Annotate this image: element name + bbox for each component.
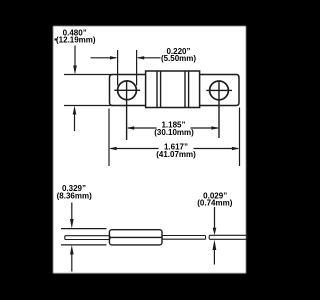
0.480 upper arrow stem bbox=[74, 46, 76, 68]
0.220 left arrowhead (right) bbox=[110, 56, 118, 59]
0.029 lower arrowhead (up) bbox=[213, 240, 217, 251]
0.029 upper arrow stem bbox=[214, 207, 216, 228]
right mounting hole bbox=[210, 81, 229, 100]
1.617 right arrowhead bbox=[232, 147, 240, 150]
1.185 left arrowhead bbox=[127, 126, 135, 129]
0.480 lower arrowhead (up) bbox=[73, 106, 77, 115]
1.617 dimension line left segment bbox=[111, 148, 159, 150]
1.617 left arrowhead bbox=[109, 147, 117, 150]
body rib line 4 bbox=[188, 71, 190, 108]
0.029 lower arrow stem bbox=[213, 249, 215, 265]
left mounting hole bbox=[118, 81, 137, 100]
white drawing panel bbox=[53, 26, 246, 273]
right hole centerline vertical bbox=[218, 81, 220, 138]
0.329 upper arrowhead (down) bbox=[70, 219, 74, 229]
svg-text:(12.19mm): (12.19mm) bbox=[56, 36, 96, 45]
side view right terminal blade segment 2 bbox=[209, 235, 247, 239]
0.329 upper arrow stem bbox=[71, 203, 73, 220]
body rib line 1 bbox=[156, 71, 158, 108]
fuse left tab outline bbox=[110, 75, 147, 106]
body rib line 3 bbox=[184, 71, 186, 108]
0.220 left extension line (hole tangent) bbox=[117, 50, 119, 86]
0.480 upper arrowhead (down) bbox=[73, 66, 77, 75]
left hole crosshair horizontal bbox=[114, 89, 140, 91]
side view fuse body block bbox=[109, 230, 162, 245]
side view left terminal blade bbox=[65, 236, 110, 240]
side view right terminal blade segment 1 bbox=[162, 236, 206, 240]
1.185 dimension line left segment bbox=[128, 127, 157, 129]
0.220 right extension line (hole tangent) bbox=[136, 50, 138, 86]
left hole centerline vertical bbox=[126, 81, 128, 140]
fuse central body outline bbox=[146, 71, 200, 108]
svg-text:(41.07mm): (41.07mm) bbox=[156, 150, 196, 159]
1.617 right extension line bbox=[239, 108, 241, 167]
1.185 dimension line right segment bbox=[191, 127, 219, 129]
fuse right tab outline bbox=[200, 75, 239, 106]
bullet artifact before (12.19mm) bbox=[55, 38, 57, 40]
0.220 left leader line bbox=[91, 57, 117, 59]
side view body parting midline bbox=[109, 236, 162, 238]
0.220 right arrowhead (left) bbox=[137, 56, 145, 59]
body rib line 2 bbox=[160, 71, 162, 108]
right hole crosshair horizontal bbox=[206, 89, 232, 91]
0.220 right leader line bbox=[138, 57, 161, 59]
1.617 left extension line bbox=[108, 109, 110, 167]
0.029 upper arrowhead (down) bbox=[213, 228, 217, 236]
1.185 right arrowhead bbox=[211, 126, 219, 129]
side view lower extension line bbox=[61, 244, 107, 246]
top-view upper extension line (tab top edge extended left) bbox=[64, 74, 113, 76]
1.617 dimension line right segment bbox=[194, 148, 239, 150]
0.329 lower arrowhead (up) bbox=[70, 245, 74, 255]
svg-text:(5.50mm): (5.50mm) bbox=[161, 54, 196, 63]
0.480 lower arrow stem bbox=[74, 113, 76, 131]
svg-text:(30.10mm): (30.10mm) bbox=[154, 128, 194, 137]
svg-text:(0.74mm): (0.74mm) bbox=[197, 199, 232, 208]
top-view lower extension line (tab bottom edge extended left) bbox=[64, 105, 113, 107]
0.329 lower arrow stem bbox=[71, 254, 73, 272]
svg-text:(8.36mm): (8.36mm) bbox=[57, 191, 92, 200]
side view upper extension line bbox=[61, 228, 107, 230]
